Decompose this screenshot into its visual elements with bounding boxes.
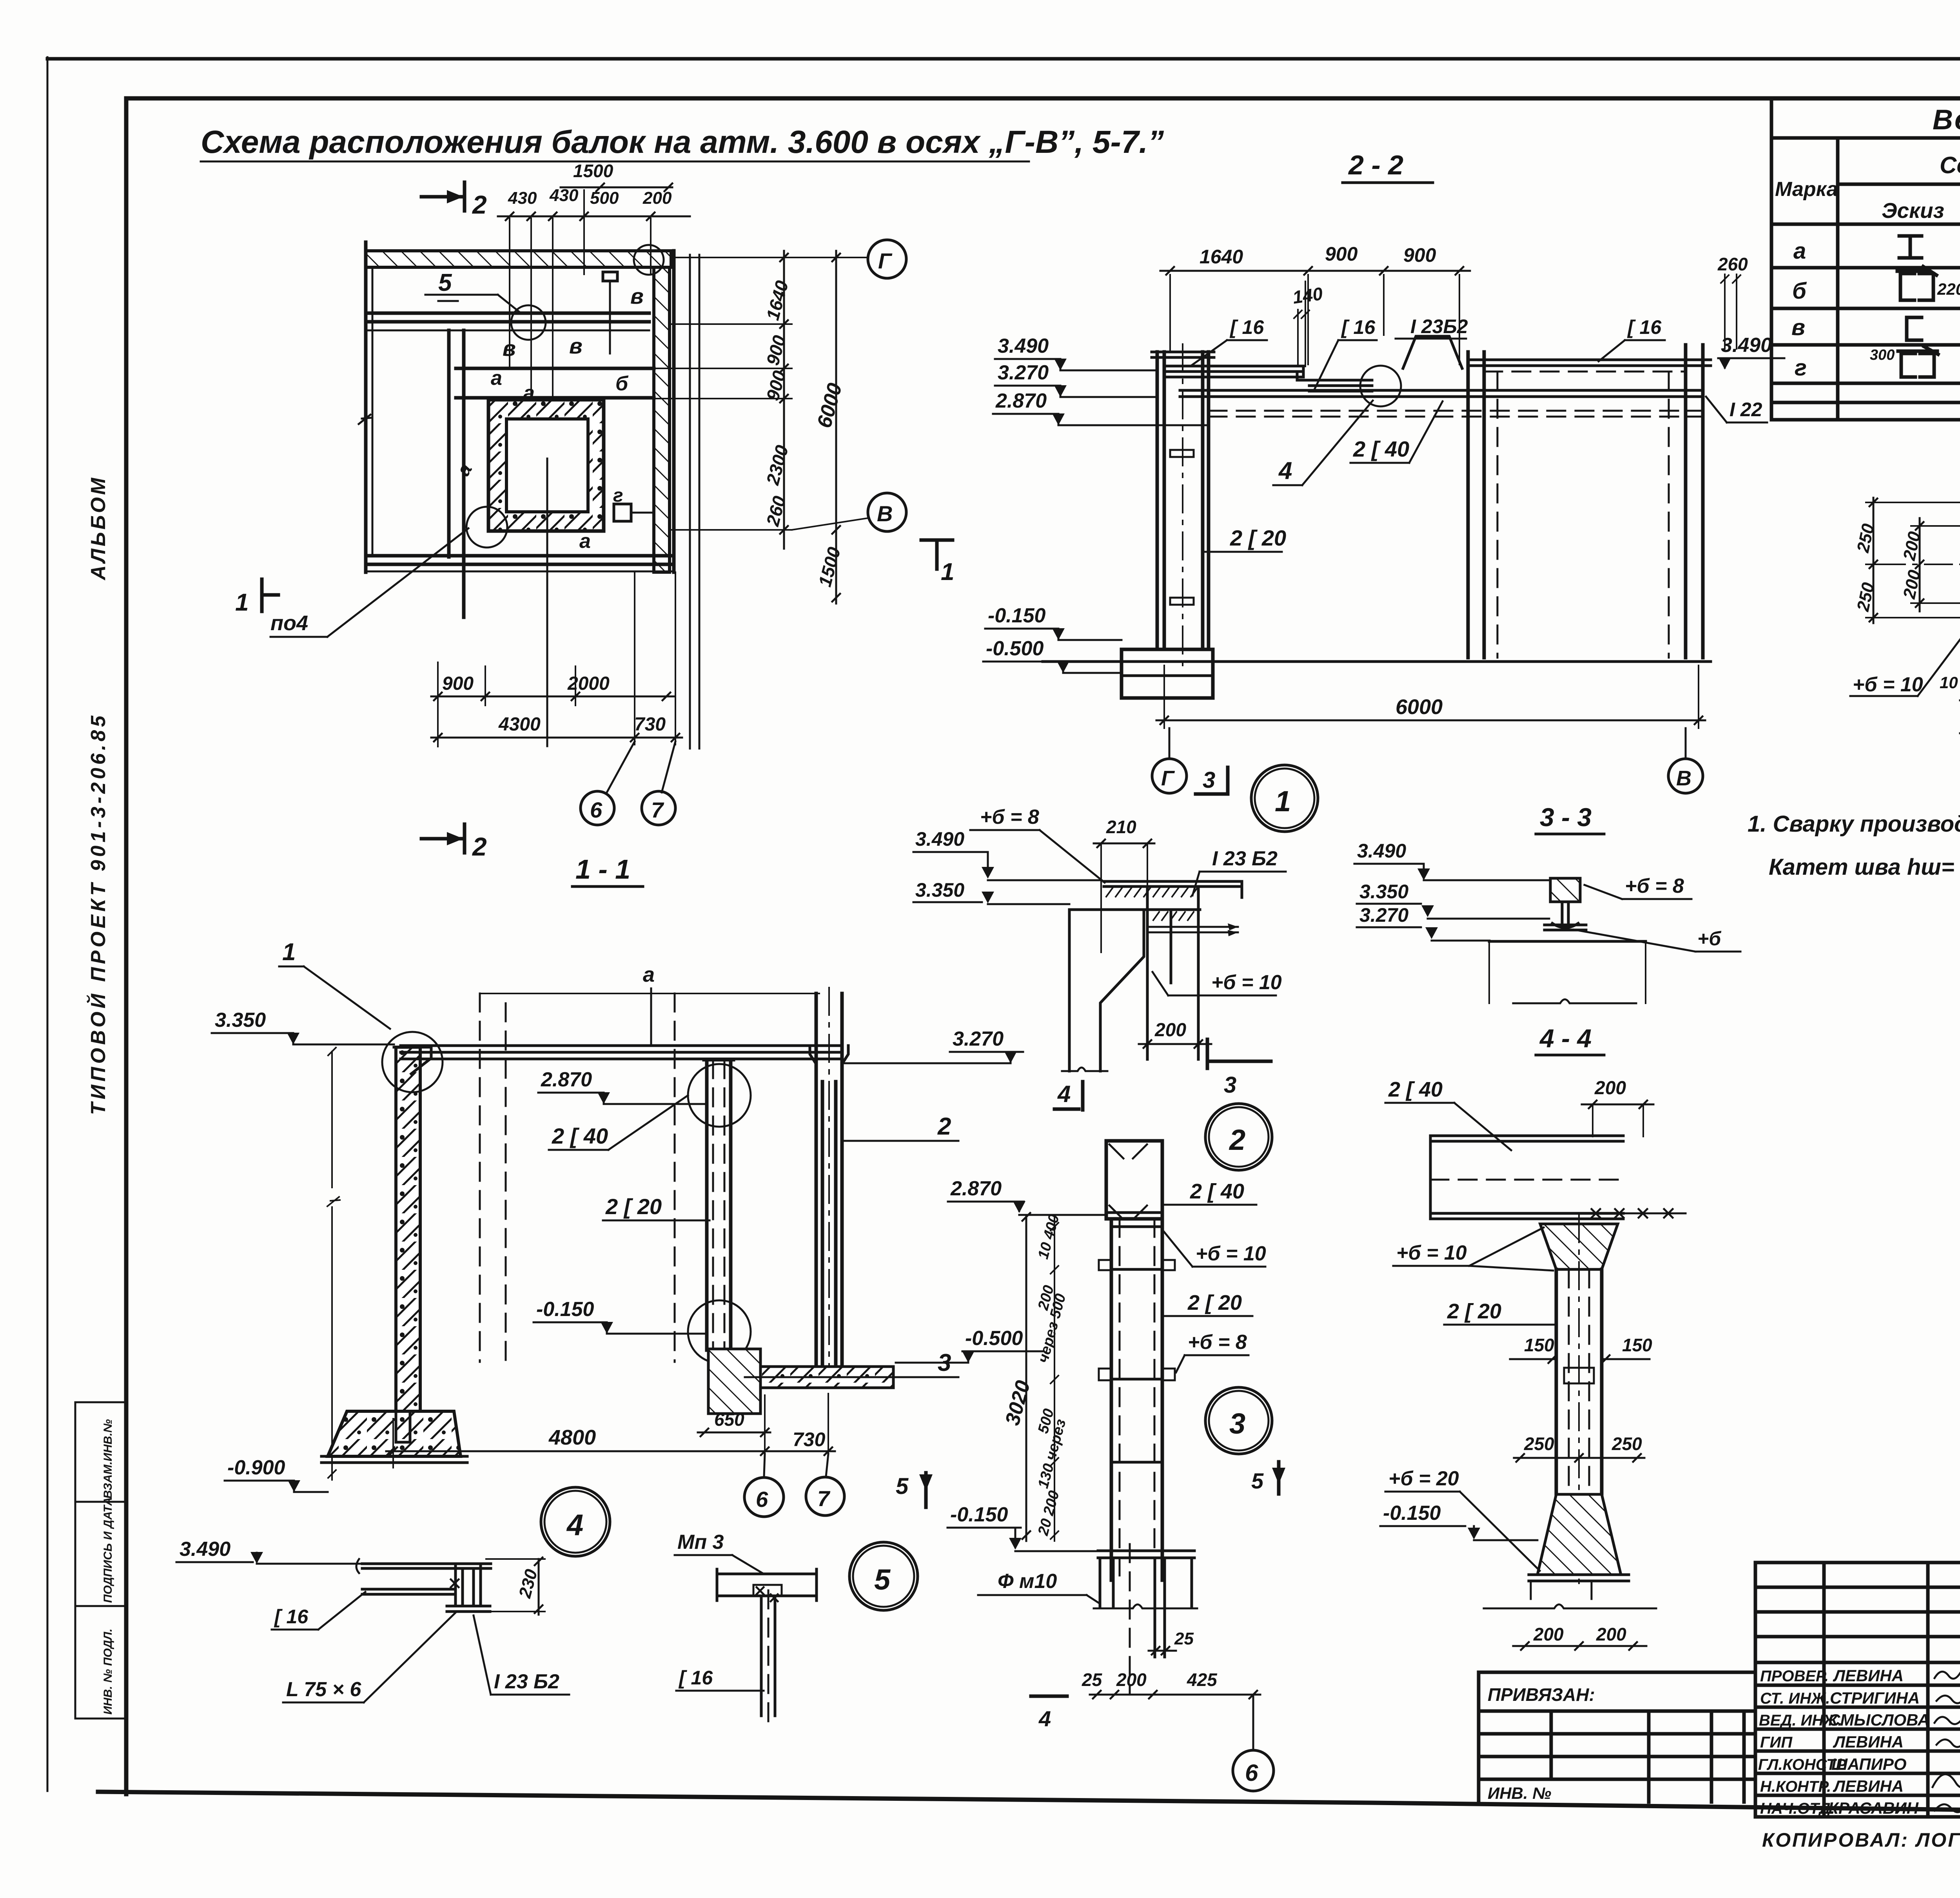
beam lower edge xyxy=(366,330,649,332)
svg-text:2 [ 40: 2 [ 40 xyxy=(1353,437,1409,461)
svg-text:2 [ 20: 2 [ 20 xyxy=(1447,1300,1501,1323)
svg-text:-0.150: -0.150 xyxy=(950,1503,1008,1526)
beam line a xyxy=(456,367,654,370)
leader down to circle 6 xyxy=(1252,1695,1254,1750)
outer left dim 250/250 xyxy=(1869,498,1877,623)
svg-text:3: 3 xyxy=(1229,1407,1245,1440)
svg-text:ШАПИРО: ШАПИРО xyxy=(1831,1755,1907,1773)
detail circle 2 xyxy=(1205,1104,1272,1170)
svg-text:260: 260 xyxy=(1717,254,1748,274)
svg-text:+б = 10: +б = 10 xyxy=(1396,1242,1467,1264)
beam top flange xyxy=(1104,881,1242,897)
svg-text:г: г xyxy=(1795,355,1807,381)
outer border top xyxy=(47,57,1960,61)
svg-text:-0.150: -0.150 xyxy=(536,1298,594,1321)
right stub verticals xyxy=(1147,886,1198,1059)
section mark 2 bottom xyxy=(421,837,465,841)
svg-text:730: 730 xyxy=(634,714,666,735)
vertical dim 3020 xyxy=(1022,1213,1030,1541)
svg-text:10: 10 xyxy=(1940,673,1958,692)
svg-text:2 [ 20: 2 [ 20 xyxy=(1187,1291,1242,1314)
base plate xyxy=(1529,1575,1629,1581)
svg-text:4: 4 xyxy=(1278,457,1292,484)
right roof slab xyxy=(1468,360,1711,366)
svg-text:200: 200 xyxy=(1533,1624,1564,1644)
section mark 3 bottom xyxy=(1206,1039,1209,1068)
axis circle G xyxy=(868,240,906,278)
svg-text:150: 150 xyxy=(1524,1335,1554,1355)
right dim chain xyxy=(780,251,788,549)
svg-text:г: г xyxy=(613,485,623,506)
svg-text:Ведомость элементов: Ведомость элементов xyxy=(1933,104,1960,136)
left shelf beam G16 xyxy=(1164,366,1303,377)
foundation block middle xyxy=(708,1349,760,1414)
inner wall vertical xyxy=(447,330,451,557)
svg-text:а: а xyxy=(579,530,591,553)
anchor below base xyxy=(1100,1558,1192,1657)
table outline xyxy=(1771,98,1960,420)
detail circle 5 xyxy=(849,1542,918,1610)
inner wall vertical 2 xyxy=(462,330,466,617)
right column cap xyxy=(810,1046,848,1082)
svg-text:6: 6 xyxy=(1245,1760,1258,1786)
far right wall xyxy=(1686,345,1703,658)
overall 6000 dim xyxy=(832,251,840,604)
svg-text:900: 900 xyxy=(1325,243,1358,265)
column top trapezoid xyxy=(1540,1224,1618,1269)
svg-text:СТРИГИНА: СТРИГИНА xyxy=(1830,1689,1920,1707)
svg-text:6: 6 xyxy=(756,1487,768,1512)
column cap xyxy=(1152,352,1214,357)
lower chord xyxy=(1069,908,1200,911)
svg-text:СМЫСЛОВА: СМЫСЛОВА xyxy=(1828,1711,1929,1729)
svg-text:6000: 6000 xyxy=(1396,695,1443,719)
svg-text:2 [ 20: 2 [ 20 xyxy=(1230,526,1286,550)
dim 650 xyxy=(698,1428,770,1436)
left footing xyxy=(328,1411,461,1456)
base plate xyxy=(1098,1550,1194,1552)
leaders to axis circles xyxy=(764,1454,765,1477)
middle step beam G16 xyxy=(1297,373,1372,391)
beam line a2 xyxy=(456,396,654,400)
svg-text:5: 5 xyxy=(874,1563,891,1596)
svg-text:Ф м10: Ф м10 xyxy=(998,1570,1057,1593)
svg-text:4300: 4300 xyxy=(498,714,541,735)
section mark 1 right xyxy=(921,538,953,542)
ground under base xyxy=(1484,1604,1656,1608)
x marks on beam bottom xyxy=(1592,1209,1673,1218)
side tabs xyxy=(1099,1260,1111,1270)
svg-text:5: 5 xyxy=(896,1474,909,1499)
svg-text:ЛЕВИНА: ЛЕВИНА xyxy=(1833,1733,1904,1751)
svg-text:4: 4 xyxy=(1038,1706,1051,1731)
double tie lines with arrows xyxy=(1147,927,1238,932)
detail circle at opening corner xyxy=(466,507,507,547)
svg-text:б: б xyxy=(1792,278,1807,304)
svg-text:1: 1 xyxy=(941,558,954,586)
svg-text:1640: 1640 xyxy=(1200,246,1243,268)
svg-text:В: В xyxy=(1676,767,1691,790)
column shaft xyxy=(1556,1269,1602,1494)
svg-text:2000: 2000 xyxy=(567,673,610,694)
svg-text:3: 3 xyxy=(1224,1072,1236,1098)
wall outer right line xyxy=(672,251,676,572)
right column xyxy=(816,993,842,1367)
svg-text:200: 200 xyxy=(1596,1624,1626,1644)
svg-text:2 [ 40: 2 [ 40 xyxy=(1190,1180,1244,1203)
bottom extension verticals xyxy=(438,572,675,747)
svg-text:650: 650 xyxy=(714,1409,744,1430)
circle mark on band corner xyxy=(634,245,664,275)
svg-text:-0.150: -0.150 xyxy=(988,604,1046,627)
svg-text:3.490: 3.490 xyxy=(1721,334,1772,357)
svg-text:2.870: 2.870 xyxy=(950,1177,1002,1200)
bottom wall lines xyxy=(366,556,674,564)
big detail circle 4 xyxy=(541,1487,610,1556)
svg-text:а: а xyxy=(643,963,655,986)
svg-text:Н.КОНТР.: Н.КОНТР. xyxy=(1760,1778,1831,1795)
bottom dim row 2 xyxy=(431,734,682,741)
svg-text:4: 4 xyxy=(1057,1081,1071,1107)
svg-text:6: 6 xyxy=(590,798,603,822)
svg-text:2 - 2: 2 - 2 xyxy=(1348,150,1403,180)
weld tabs on column xyxy=(1170,450,1194,457)
svg-text:СТ. ИНЖ.: СТ. ИНЖ. xyxy=(1760,1690,1830,1707)
svg-text:ПРИВЯЗАН:: ПРИВЯЗАН: xyxy=(1488,1684,1595,1705)
svg-text:в: в xyxy=(630,284,644,308)
deck beam 2S40 solid lines xyxy=(1180,390,1703,397)
top dim extension verticals xyxy=(1170,275,1459,364)
top wall hatched band xyxy=(366,251,671,267)
svg-text:КРАСАВИН: КРАСАВИН xyxy=(1828,1799,1919,1817)
svg-text:I 22: I 22 xyxy=(1730,399,1762,421)
axis G circle xyxy=(1169,728,1171,758)
svg-text:ИНВ. №: ИНВ. № xyxy=(1488,1784,1551,1802)
dim 4800 / 730 xyxy=(386,1447,835,1455)
svg-text:+б = 8: +б = 8 xyxy=(1625,875,1684,897)
svg-text:4: 4 xyxy=(566,1508,583,1542)
top dim line 1640/900/900 xyxy=(1160,267,1470,275)
svg-text:1500: 1500 xyxy=(573,161,613,181)
left wall inner line xyxy=(372,267,374,556)
footing xyxy=(1122,649,1213,698)
stiffener lines xyxy=(1111,1227,1162,1462)
svg-text:430: 430 xyxy=(549,186,579,205)
section mark 2 top xyxy=(421,195,465,199)
svg-text:-0.900: -0.900 xyxy=(227,1456,285,1479)
svg-text:по4: по4 xyxy=(270,611,308,635)
svg-text:Мп 3: Мп 3 xyxy=(677,1531,724,1554)
svg-text:500: 500 xyxy=(590,189,619,208)
frame bottom (slightly skewed scan) xyxy=(98,1792,1960,1817)
svg-text:3.350: 3.350 xyxy=(1359,881,1408,903)
svg-text:+б = 20: +б = 20 xyxy=(1388,1467,1459,1490)
inner frame top xyxy=(126,96,1960,101)
svg-text:3.490: 3.490 xyxy=(998,335,1049,357)
column shaft xyxy=(1111,1219,1162,1580)
svg-text:5: 5 xyxy=(438,269,452,296)
svg-text:3.490: 3.490 xyxy=(180,1538,230,1561)
level line to box xyxy=(1019,1214,1106,1216)
thin grid verticals from top dims xyxy=(510,190,651,400)
axis circle V xyxy=(868,493,906,531)
I23B2 beam trapezoid xyxy=(1403,336,1462,368)
svg-text:2 [ 40: 2 [ 40 xyxy=(552,1124,608,1148)
2S40 box section at top xyxy=(1106,1141,1162,1219)
svg-text:2 [ 40: 2 [ 40 xyxy=(1388,1078,1443,1101)
svg-text:L 75 × 6: L 75 × 6 xyxy=(286,1678,361,1701)
svg-text:ПРОВЕР.: ПРОВЕР. xyxy=(1760,1668,1829,1685)
column web outline xyxy=(1069,910,1144,1071)
svg-text:Г: Г xyxy=(1161,767,1175,790)
middle column xyxy=(707,1060,731,1350)
svg-text:2: 2 xyxy=(472,190,487,219)
bottom dim row 1 xyxy=(431,692,674,700)
right extension lines xyxy=(654,257,868,530)
svg-text:Катет шва hш= 6 мм.: Катет шва hш= 6 мм. xyxy=(1769,854,1960,880)
beam line 5 (double) xyxy=(366,313,649,322)
svg-text:+б = 8: +б = 8 xyxy=(1188,1331,1247,1354)
svg-text:I 23 Б2: I 23 Б2 xyxy=(494,1670,559,1693)
svg-text:900: 900 xyxy=(1403,244,1436,266)
svg-text:ГИП: ГИП xyxy=(1760,1734,1793,1751)
top beam xyxy=(401,1046,842,1059)
svg-text:5: 5 xyxy=(1251,1468,1264,1493)
svg-text:7: 7 xyxy=(817,1486,831,1511)
svg-text:1. Сварку производить электр: 1. Сварку производить электродами Э42 по… xyxy=(1748,811,1960,837)
svg-text:3.490: 3.490 xyxy=(915,828,964,850)
detail circle on deck xyxy=(1360,366,1401,406)
svg-text:Сечение: Сечение xyxy=(1940,152,1960,178)
left wall line xyxy=(364,242,368,572)
ground line xyxy=(1489,940,1646,943)
svg-text:200: 200 xyxy=(1594,1078,1626,1099)
svg-text:3 - 3: 3 - 3 xyxy=(1540,803,1592,832)
svg-text:+б = 10: +б = 10 xyxy=(1196,1242,1266,1265)
small column section xyxy=(1550,878,1580,902)
dim 230 xyxy=(535,1557,543,1615)
splice plate xyxy=(1564,1368,1594,1383)
big detail circle 1 xyxy=(1251,765,1318,832)
axis circle 6 xyxy=(581,791,614,825)
svg-text:250: 250 xyxy=(1524,1434,1554,1454)
svg-text:Схема расположения балок на: Схема расположения балок на атм. 3.600 в… xyxy=(201,124,1164,160)
axis circle 7 xyxy=(806,1477,844,1515)
svg-text:-0.500: -0.500 xyxy=(965,1327,1023,1350)
detail circle at column top xyxy=(382,1032,443,1092)
svg-text:4 - 4: 4 - 4 xyxy=(1539,1024,1592,1053)
center line of opening xyxy=(546,459,548,746)
sub dim chain xyxy=(1051,1215,1058,1541)
tank opening: hatched ring xyxy=(488,400,604,531)
svg-text:430: 430 xyxy=(508,189,537,208)
svg-text:210: 210 xyxy=(1106,817,1136,837)
svg-text:3.490: 3.490 xyxy=(1357,840,1406,862)
svg-text:Г: Г xyxy=(878,248,893,273)
column bottom trapezoid xyxy=(1537,1494,1621,1575)
left concrete column xyxy=(396,1047,420,1411)
svg-text:в: в xyxy=(503,336,516,361)
svg-text:900: 900 xyxy=(442,673,474,694)
svg-text:3.270: 3.270 xyxy=(953,1028,1004,1050)
svg-text:АЛЬБОМ: АЛЬБОМ xyxy=(87,475,110,581)
svg-text:в: в xyxy=(569,334,583,358)
svg-text:а: а xyxy=(1793,238,1806,264)
svg-text:+б = 8: +б = 8 xyxy=(980,806,1039,828)
right wall hatched band xyxy=(654,267,670,572)
svg-text:1 - 1: 1 - 1 xyxy=(575,854,630,885)
svg-text:2: 2 xyxy=(937,1113,951,1140)
svg-text:I 23 Б2: I 23 Б2 xyxy=(1212,847,1278,870)
svg-text:1: 1 xyxy=(282,939,296,966)
axis circle 6 xyxy=(744,1477,784,1517)
thin top line xyxy=(480,993,819,994)
svg-text:1: 1 xyxy=(1275,785,1291,818)
svg-text:НАЧ.ОТД.: НАЧ.ОТД. xyxy=(1760,1800,1835,1817)
outer border left xyxy=(47,57,49,1791)
dashed wall axes xyxy=(480,993,675,1362)
axis leaders to circles 6,7 xyxy=(607,741,635,792)
axis circle 7 xyxy=(642,791,675,825)
inner left dim 200/200 xyxy=(1916,518,1924,611)
svg-text:3.270: 3.270 xyxy=(1359,904,1408,926)
left dim extensions xyxy=(1866,502,1960,618)
beam 2[40 side view xyxy=(1430,1136,1623,1219)
svg-text:25: 25 xyxy=(1174,1629,1194,1648)
svg-text:КОПИРОВАЛ: ЛОГИНОВА: КОПИРОВАЛ: ЛОГИНОВА xyxy=(1762,1829,1960,1851)
axis V circle xyxy=(1685,728,1687,758)
svg-text:В: В xyxy=(877,501,893,526)
svg-text:1: 1 xyxy=(235,589,249,616)
svg-text:730: 730 xyxy=(793,1428,826,1450)
inner frame left xyxy=(124,98,129,1794)
height dim line left of 1-1 xyxy=(327,1048,340,1480)
svg-text:200: 200 xyxy=(1116,1670,1147,1690)
svg-text:2: 2 xyxy=(472,832,487,861)
svg-text:а: а xyxy=(523,382,535,404)
G16 beam with I23B2 xyxy=(362,1564,491,1594)
view mark 4 bottom xyxy=(1031,1695,1067,1698)
svg-text:б: б xyxy=(615,372,629,395)
detail circle 3 xyxy=(1205,1387,1272,1454)
svg-text:ЛЕВИНА: ЛЕВИНА xyxy=(1833,1666,1904,1685)
svg-text:Эскиз: Эскиз xyxy=(1882,198,1944,223)
g-block xyxy=(614,504,631,521)
svg-text:[ 16: [ 16 xyxy=(678,1667,713,1689)
svg-text:в: в xyxy=(1791,315,1805,340)
svg-text:7: 7 xyxy=(651,798,664,822)
svg-text:ИНВ. № ПОДЛ.: ИНВ. № ПОДЛ. xyxy=(102,1629,114,1715)
svg-text:[ 16: [ 16 xyxy=(274,1606,309,1628)
svg-text:2: 2 xyxy=(1229,1124,1245,1156)
svg-text:[ 16: [ 16 xyxy=(1229,316,1264,338)
svg-text:+б: +б xyxy=(1697,928,1722,950)
axis circle 6 bottom xyxy=(1233,1750,1274,1791)
ground line xyxy=(1043,660,1711,663)
svg-text:-0.150: -0.150 xyxy=(1383,1502,1441,1525)
deck hidden dashed lines xyxy=(1209,411,1703,417)
svg-text:I 23Б2: I 23Б2 xyxy=(1410,315,1468,337)
top small box with stem xyxy=(603,272,617,281)
center axis horizontal xyxy=(1878,564,1960,565)
middle column detail circles xyxy=(688,1064,751,1127)
column 2[20 xyxy=(1157,352,1209,649)
svg-text:а: а xyxy=(491,367,502,390)
svg-text:425: 425 xyxy=(1187,1670,1218,1690)
svg-text:200: 200 xyxy=(1154,1020,1186,1041)
ground band right xyxy=(760,1367,893,1388)
svg-text:3.270: 3.270 xyxy=(998,361,1049,384)
svg-text:2.870: 2.870 xyxy=(995,390,1047,412)
svg-text:[ 16: [ 16 xyxy=(1627,316,1662,338)
svg-text:3.350: 3.350 xyxy=(215,1009,266,1031)
svg-text:ПОДПИСЬ И ДАТА: ПОДПИСЬ И ДАТА xyxy=(102,1497,114,1603)
svg-text:220: 220 xyxy=(1937,280,1960,298)
svg-text:Марка: Марка xyxy=(1775,178,1838,201)
left margin bottom stamp table xyxy=(75,1402,126,1719)
svg-text:[ 16: [ 16 xyxy=(1341,316,1376,338)
svg-text:250: 250 xyxy=(1612,1434,1642,1454)
svg-text:ТИПОВОЙ ПРОЕКТ 901-3-206.85: ТИПОВОЙ ПРОЕКТ 901-3-206.85 xyxy=(86,712,110,1115)
svg-text:300: 300 xyxy=(1870,347,1895,363)
break mark on left wall xyxy=(359,415,371,424)
svg-text:4800: 4800 xyxy=(548,1426,596,1449)
svg-text:ВЗАМ.ИНВ.№: ВЗАМ.ИНВ.№ xyxy=(102,1419,114,1499)
svg-text:+б = 10: +б = 10 xyxy=(1853,673,1923,696)
svg-text:2 [ 20: 2 [ 20 xyxy=(605,1194,662,1219)
svg-text:+б = 10: +б = 10 xyxy=(1211,971,1282,994)
column top cap xyxy=(394,1047,431,1074)
svg-text:200: 200 xyxy=(642,189,672,208)
signatures xyxy=(1933,1669,1960,1812)
right wall near xyxy=(1468,352,1484,658)
weld sawtooth left xyxy=(1106,888,1197,897)
axis extension verticals xyxy=(690,255,699,749)
dim 6000 xyxy=(1156,716,1705,724)
svg-text:25: 25 xyxy=(1082,1670,1103,1690)
svg-text:-0.500: -0.500 xyxy=(986,637,1044,660)
svg-text:ЛЕВИНА: ЛЕВИНА xyxy=(1833,1777,1904,1795)
svg-text:3.350: 3.350 xyxy=(915,879,964,901)
svg-text:2.870: 2.870 xyxy=(541,1068,592,1091)
svg-text:150: 150 xyxy=(1622,1335,1652,1355)
svg-text:3: 3 xyxy=(1203,767,1215,793)
